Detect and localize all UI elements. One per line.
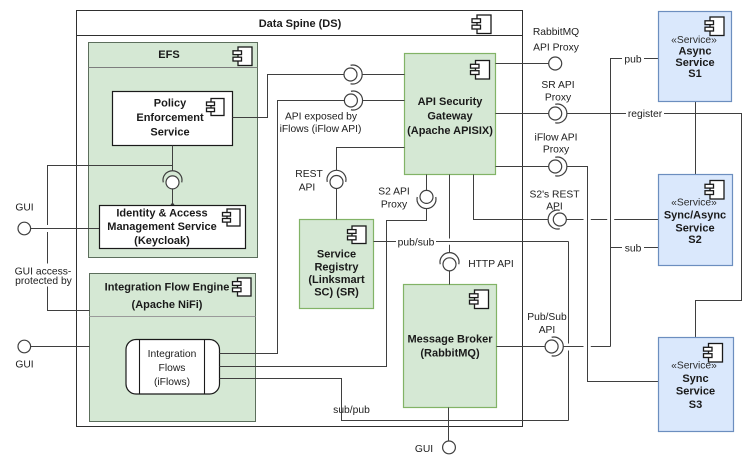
interface HTTP API ball+socket bbox=[440, 253, 514, 271]
svg-text:Proxy: Proxy bbox=[543, 145, 570, 156]
wire GUI access-protected by (IAM interface to IFE) bbox=[12, 166, 173, 311]
interface REST API ball+socket bbox=[295, 169, 346, 194]
label register bbox=[626, 108, 664, 121]
component icon of S3 bbox=[704, 344, 723, 363]
interface ball+socket lower (iFlows-ASG) bbox=[344, 91, 362, 110]
svg-text:GUI: GUI bbox=[415, 444, 433, 455]
component icon of S1 bbox=[705, 17, 724, 36]
svg-text:(iFlows): (iFlows) bbox=[154, 377, 190, 388]
port GUI2 circle bbox=[15, 340, 33, 370]
component Async Service S1 bbox=[659, 12, 732, 102]
svg-text:S3: S3 bbox=[689, 399, 702, 411]
svg-text:S2's REST: S2's REST bbox=[529, 190, 580, 201]
component icon of SR bbox=[348, 226, 367, 244]
svg-text:pub: pub bbox=[624, 55, 641, 66]
wire S1 to S2 bbox=[695, 102, 697, 175]
wire GUI2 to Integration Flow Engine bbox=[31, 346, 90, 348]
svg-text:HTTP API: HTTP API bbox=[468, 259, 514, 270]
svg-text:(Apache APISIX): (Apache APISIX) bbox=[407, 125, 493, 137]
component Service Registry (Linksmart SC) (SR) bbox=[300, 220, 374, 309]
port GUI1 circle bbox=[15, 203, 33, 235]
svg-text:Flows: Flows bbox=[159, 363, 186, 374]
component icon of Message Broker bbox=[470, 290, 489, 309]
label pub bbox=[622, 53, 644, 66]
component API Security Gateway (Apache APISIX) bbox=[405, 54, 496, 175]
svg-text:Service: Service bbox=[317, 249, 356, 261]
wire ASG to SR API Proxy and register net to S3 bbox=[496, 114, 742, 338]
svg-text:pub/sub: pub/sub bbox=[398, 238, 435, 249]
wire PES to IAM (ball and socket) bbox=[163, 146, 182, 207]
svg-text:Service: Service bbox=[150, 127, 189, 139]
component icon of Policy Enforcement Service bbox=[207, 99, 225, 116]
svg-text:Registry: Registry bbox=[314, 262, 359, 274]
component icon of EFS bbox=[233, 47, 252, 66]
svg-text:iFlows (iFlow API): iFlows (iFlow API) bbox=[280, 124, 362, 135]
svg-text:API: API bbox=[546, 202, 563, 213]
component Data Spine (DS) frame bbox=[77, 11, 523, 427]
svg-text:Message Broker: Message Broker bbox=[408, 334, 494, 346]
component icon of IAM bbox=[223, 209, 241, 226]
component EFS container bbox=[89, 43, 258, 258]
svg-text:SC) (SR): SC) (SR) bbox=[314, 287, 359, 299]
svg-text:Management Service: Management Service bbox=[107, 221, 216, 233]
component Integration Flow Engine (Apache NiFi) container bbox=[90, 274, 256, 422]
svg-text:iFlow API: iFlow API bbox=[535, 133, 578, 144]
svg-text:S2: S2 bbox=[688, 234, 701, 246]
wire SR pub/sub long path to iFlows sub/pub bbox=[220, 242, 569, 421]
wire ASG to HTTP API to Message Broker bbox=[449, 175, 451, 285]
interface SR API Proxy ball+socket bbox=[541, 80, 574, 123]
component Sync/Async Service S2 bbox=[659, 175, 733, 266]
svg-text:Integration Flow Engine: Integration Flow Engine bbox=[105, 282, 230, 294]
svg-text:Policy: Policy bbox=[154, 98, 187, 110]
svg-text:sub/pub: sub/pub bbox=[333, 405, 370, 416]
svg-text:API: API bbox=[539, 325, 556, 336]
svg-text:Pub/Sub: Pub/Sub bbox=[527, 312, 567, 323]
wire Message Broker Pub/Sub API to pub-sub vertical bbox=[497, 346, 611, 348]
svg-text:Data Spine (DS): Data Spine (DS) bbox=[259, 18, 342, 30]
interface S2 API Proxy ball+socket bbox=[378, 187, 436, 211]
svg-text:(Keycloak): (Keycloak) bbox=[134, 235, 190, 247]
svg-text:Sync: Sync bbox=[682, 373, 708, 385]
svg-text:Service: Service bbox=[676, 386, 715, 398]
svg-text:«Service»: «Service» bbox=[671, 35, 717, 46]
svg-text:Gateway: Gateway bbox=[427, 111, 473, 123]
svg-text:SR API: SR API bbox=[541, 80, 574, 91]
svg-text:(Apache NiFi): (Apache NiFi) bbox=[132, 299, 203, 311]
svg-text:Proxy: Proxy bbox=[545, 93, 572, 104]
interface iFlow API Proxy ball+socket bbox=[535, 133, 578, 177]
svg-text:Identity & Access: Identity & Access bbox=[116, 208, 207, 220]
svg-text:Service: Service bbox=[675, 222, 714, 234]
svg-text:RabbitMQ: RabbitMQ bbox=[533, 27, 579, 38]
component Policy Enforcement Service bbox=[113, 92, 233, 146]
port GUI3 circle bbox=[415, 441, 456, 455]
wire ASG to S2's REST API to S2 bbox=[474, 175, 659, 220]
wire iFlows to lollipop iFlow API to ASG bbox=[220, 101, 405, 354]
component Sync Service S3 bbox=[659, 338, 734, 432]
label pub/sub bbox=[396, 236, 436, 249]
svg-text:protected by: protected by bbox=[15, 276, 73, 287]
component Message Broker (RabbitMQ) bbox=[404, 285, 497, 408]
interface S2's REST API socket+ball bbox=[529, 190, 580, 230]
wire ASG S2 API Proxy to iFlows bbox=[220, 175, 427, 367]
svg-text:(Linksmart: (Linksmart bbox=[308, 274, 365, 286]
svg-text:API: API bbox=[299, 183, 316, 194]
svg-text:API exposed by: API exposed by bbox=[285, 112, 358, 123]
svg-text:Sync/Async: Sync/Async bbox=[664, 209, 726, 221]
wire ASG to REST API to SR bbox=[337, 148, 405, 220]
svg-text:Proxy: Proxy bbox=[381, 200, 408, 211]
wire Message Broker to GUI3 bbox=[448, 408, 450, 442]
wire pub sub vertical to S1 and S2 bbox=[611, 59, 659, 347]
label API exposed by iFlows (iFlow API) bbox=[280, 112, 362, 136]
wire ASG to RabbitMQ API Proxy bbox=[496, 63, 549, 65]
component icon of ASG bbox=[471, 61, 490, 80]
svg-text:EFS: EFS bbox=[158, 49, 179, 61]
wire PES to lollipop iFlow exposed API 1 to ASG bbox=[233, 75, 405, 118]
svg-text:GUI: GUI bbox=[15, 203, 33, 214]
component icon of S2 bbox=[705, 181, 724, 200]
component Identity & Access Management Service (Keycloak) bbox=[100, 206, 246, 249]
svg-text:(RabbitMQ): (RabbitMQ) bbox=[420, 348, 480, 360]
svg-text:Async: Async bbox=[678, 46, 711, 58]
svg-text:API Proxy: API Proxy bbox=[533, 43, 580, 54]
component icon of Data Spine bbox=[472, 15, 491, 34]
svg-text:S1: S1 bbox=[688, 68, 701, 80]
wire ASG to iFlow API Proxy to S3 bbox=[496, 167, 659, 382]
label sub/pub bbox=[333, 405, 370, 416]
svg-text:register: register bbox=[628, 109, 663, 120]
svg-text:REST: REST bbox=[295, 169, 323, 180]
svg-text:Enforcement: Enforcement bbox=[136, 112, 204, 124]
label sub bbox=[622, 242, 644, 255]
svg-text:Integration: Integration bbox=[148, 349, 197, 360]
svg-text:S2 API: S2 API bbox=[378, 187, 409, 198]
svg-text:sub: sub bbox=[625, 244, 642, 255]
svg-text:GUI: GUI bbox=[15, 360, 33, 371]
interface Pub/Sub API ball+socket bbox=[527, 312, 567, 356]
component icon of Integration Flow Engine bbox=[233, 278, 252, 296]
component Integration Flows (iFlows) bbox=[126, 340, 220, 395]
wire GUI1 to IAM bbox=[31, 228, 100, 230]
interface RabbitMQ API Proxy ball bbox=[533, 27, 580, 70]
interface ball+socket upper (PES-ASG) bbox=[344, 65, 362, 84]
svg-text:API Security: API Security bbox=[418, 96, 484, 108]
